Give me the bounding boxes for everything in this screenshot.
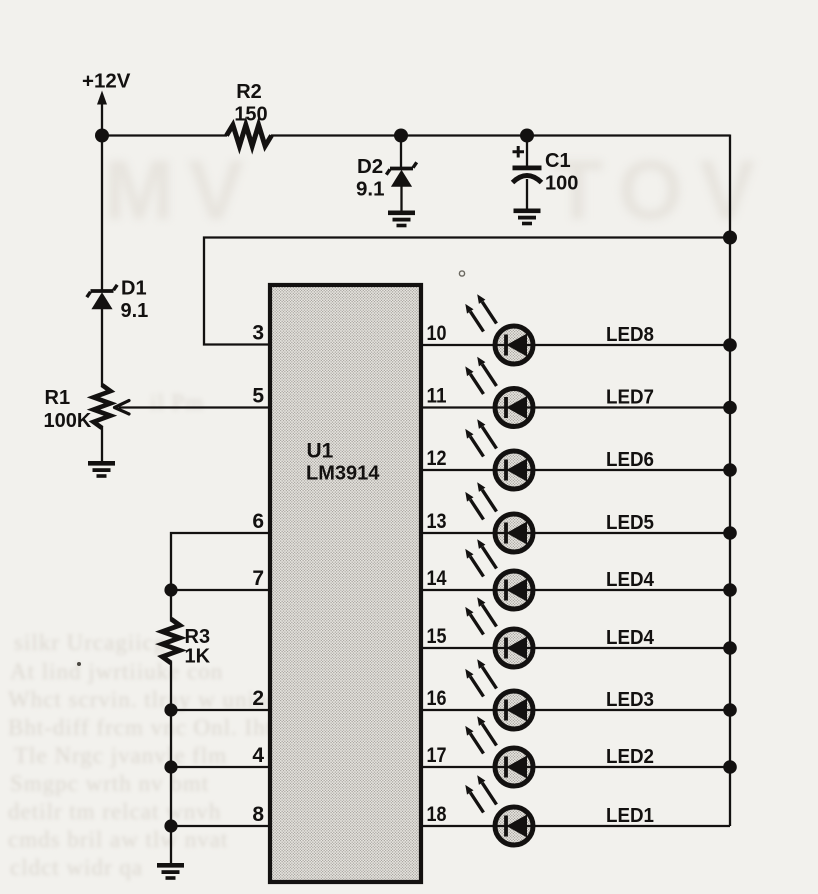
label 150: [234, 104, 267, 126]
svg-text:LM3914: LM3914: [306, 463, 380, 485]
label LED1: [606, 804, 654, 827]
wire: D2 branch: [400, 136, 402, 170]
LED LED3 (pin 16): [465, 659, 533, 729]
label D1 9.1: [121, 300, 149, 322]
resistor R2: [227, 125, 272, 146]
pin 11 label: [427, 385, 447, 408]
svg-text:6: 6: [252, 510, 264, 533]
svg-text:LED6: LED6: [606, 448, 654, 471]
svg-text:+12V: +12V: [82, 70, 131, 93]
node: LED6 bus junction: [723, 463, 737, 477]
node: LED4 bus junction: [723, 641, 737, 655]
label R2: [236, 81, 262, 103]
pin 13 label: [427, 510, 447, 533]
label C1 100: [545, 173, 578, 195]
wire: top rail (left of R2): [102, 134, 227, 136]
label LED5: [606, 511, 654, 534]
wire: pin 3 net: [204, 238, 730, 345]
svg-text:100K: 100K: [44, 410, 92, 432]
svg-text:17: 17: [427, 744, 447, 767]
svg-text:4: 4: [252, 744, 264, 767]
wire: pin 12 to LED and bus: [419, 469, 730, 471]
svg-text:100: 100: [545, 173, 578, 195]
pin 2 label: [252, 687, 264, 710]
svg-text:R1: R1: [45, 387, 71, 409]
svg-text:7: 7: [252, 567, 264, 590]
node: +12V junction: [95, 129, 109, 143]
label LED4: [606, 568, 655, 591]
pin 6 label: [252, 510, 264, 533]
svg-text:LED8: LED8: [606, 323, 654, 346]
wire: C1 to ground: [526, 179, 528, 209]
LED LED4 (pin 14): [465, 539, 533, 609]
LED LED5 (pin 13): [465, 482, 533, 552]
potentiometer R1: [94, 385, 111, 428]
node: LED3 bus junction: [723, 703, 737, 717]
wire: pin 18 to LED and bus: [419, 825, 730, 827]
svg-text:9.1: 9.1: [121, 300, 149, 322]
label R1: [45, 387, 71, 409]
label LED7: [606, 386, 654, 409]
capacitor C1: [513, 166, 542, 183]
svg-text:D2: D2: [357, 155, 383, 178]
label +12V: [82, 70, 131, 93]
IC U1 LM3914 body: [270, 285, 421, 882]
wire: pin 2: [171, 709, 272, 711]
label 100K: [44, 410, 92, 432]
svg-text:150: 150: [234, 104, 267, 126]
wire: pin 7: [171, 589, 272, 591]
svg-text:14: 14: [427, 567, 447, 590]
svg-text:C1: C1: [545, 150, 571, 172]
svg-text:13: 13: [427, 510, 447, 533]
wire: top rail (right of R2): [271, 134, 730, 136]
svg-text:2: 2: [252, 687, 264, 710]
label LED4: [606, 626, 655, 649]
node: LED7 bus junction: [723, 401, 737, 415]
+12V arrow: [97, 91, 107, 105]
wire: pin 15 to LED and bus: [419, 647, 730, 649]
node: pin 4 junction: [164, 760, 177, 773]
label D2: [357, 155, 383, 178]
wire: pin 13 to LED and bus: [419, 532, 730, 534]
pin 12 label: [427, 447, 447, 470]
wire: pin 6 net: [171, 533, 272, 620]
label LED6: [606, 448, 654, 471]
LED LED2 (pin 17): [465, 716, 533, 786]
LED LED1 (pin 18): [465, 775, 533, 845]
svg-text:R2: R2: [236, 81, 262, 103]
svg-text:D1: D1: [121, 278, 147, 300]
svg-text:LED7: LED7: [606, 386, 654, 409]
svg-text:16: 16: [427, 687, 447, 710]
wire: pin 16 to LED and bus: [419, 709, 730, 711]
LED LED4 (pin 15): [465, 597, 533, 667]
label LED2: [606, 745, 654, 768]
wire: right bus: [729, 135, 731, 827]
R1 wiper arrow: [115, 401, 273, 415]
pin 4 label: [252, 744, 264, 767]
wire: R3 to ground bus: [170, 662, 172, 864]
svg-text:3: 3: [252, 322, 264, 345]
node: LED4 bus junction: [723, 583, 737, 597]
label LM3914: [306, 463, 380, 485]
svg-text:LED4: LED4: [606, 568, 655, 591]
wire: pin 10 to LED and bus: [419, 344, 730, 346]
node: LED2 bus junction: [723, 760, 737, 774]
node: LED8 bus junction: [723, 338, 737, 352]
svg-text:11: 11: [427, 385, 447, 408]
resistor R3: [162, 619, 180, 663]
LED LED7 (pin 11): [465, 357, 533, 427]
pin 10 label: [427, 322, 447, 345]
label LED8: [606, 323, 654, 346]
label R3: [185, 626, 211, 648]
node: LED5 bus junction: [723, 526, 737, 540]
svg-text:LED2: LED2: [606, 745, 654, 768]
wire: left bus upper: [101, 136, 103, 291]
wire: pin 4: [171, 766, 272, 768]
label C1: [545, 150, 571, 172]
zener diode D2: [386, 162, 416, 186]
svg-text:8: 8: [252, 803, 264, 826]
wire: D1 to R1: [101, 308, 103, 387]
svg-text:U1: U1: [307, 440, 334, 463]
svg-text:LED4: LED4: [606, 626, 655, 649]
wire: pin 17 to LED and bus: [419, 766, 730, 768]
svg-text:5: 5: [252, 385, 264, 408]
wire: R1 to ground: [101, 426, 103, 462]
pin 7 label: [252, 567, 264, 590]
svg-text:18: 18: [427, 803, 447, 826]
ground (D2): [388, 211, 415, 228]
node: D2 junction: [394, 129, 408, 143]
wire: pin 11 to LED and bus: [419, 406, 730, 408]
pin 17 label: [427, 744, 447, 767]
pin 3 label: [252, 322, 264, 345]
label LED3: [606, 688, 654, 711]
pin 15 label: [427, 625, 447, 648]
node: pin 7 junction: [164, 583, 177, 596]
pin 14 label: [427, 567, 447, 590]
pin 18 label: [427, 803, 447, 826]
svg-text:12: 12: [427, 447, 447, 470]
svg-text:LED1: LED1: [606, 804, 654, 827]
label C1 polarity +: [513, 146, 525, 158]
ground (left bus): [157, 863, 184, 880]
svg-text:15: 15: [427, 625, 447, 648]
label U1: [307, 440, 334, 463]
label 1K: [185, 646, 211, 668]
wire: C1 top lead: [526, 136, 528, 168]
wire: +12V stem: [101, 103, 103, 136]
node: pin 2 junction: [164, 703, 177, 716]
svg-text:9.1: 9.1: [356, 178, 385, 201]
svg-text:LED5: LED5: [606, 511, 654, 534]
wire: pin 14 to LED and bus: [419, 589, 730, 591]
svg-text:LED3: LED3: [606, 688, 654, 711]
svg-text:10: 10: [427, 322, 447, 345]
label D2 9.1: [356, 178, 385, 201]
svg-text:1K: 1K: [185, 646, 211, 668]
ground (R1): [88, 461, 115, 478]
LED LED8 (pin 10): [465, 294, 533, 364]
label D1: [121, 278, 147, 300]
wire: pin 8: [171, 825, 272, 827]
pin 8 label: [252, 803, 264, 826]
node: pin3 rail junction: [723, 231, 737, 245]
zener diode D1: [87, 285, 117, 309]
LED LED6 (pin 12): [465, 419, 533, 489]
pin 16 label: [427, 687, 447, 710]
ground (C1): [514, 209, 541, 226]
pin 5 label: [252, 385, 264, 408]
node: pin 8 junction: [164, 819, 177, 832]
wire: D2 to ground: [400, 186, 402, 211]
node: C1 junction: [520, 129, 534, 143]
